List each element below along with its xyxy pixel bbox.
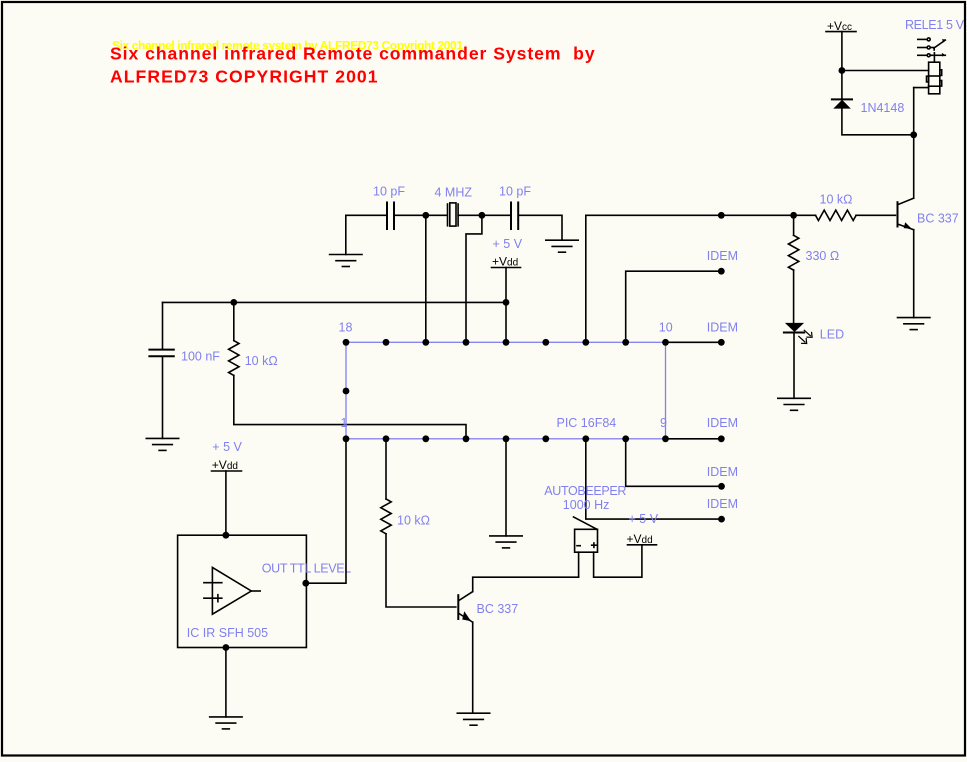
relay K1 contact 2	[918, 46, 934, 50]
wire Q2 collector up to relay node	[913, 88, 915, 199]
svg-text:IDEM: IDEM	[707, 416, 738, 430]
pin 15 dot	[463, 339, 470, 346]
svg-text:10 kΩ: 10 kΩ	[245, 354, 278, 368]
svg-text:10 kΩ: 10 kΩ	[397, 513, 430, 527]
node IDEM-5 dot	[718, 516, 725, 523]
pin 7 dot	[582, 435, 589, 442]
pin 17 dot	[383, 339, 390, 346]
wire C1 to node A	[394, 214, 447, 216]
pin 10 dot	[662, 339, 669, 346]
wire +Vdd down to IR receiver box	[225, 471, 227, 535]
wire R2 to LED	[793, 270, 795, 323]
node U2 output dot	[302, 580, 309, 587]
wire node D down to capacitor C3	[162, 302, 164, 349]
node B junction dot	[479, 212, 486, 219]
pin 6 dot	[542, 435, 549, 442]
wire osc rail left segment	[346, 214, 387, 216]
svg-text:BC 337: BC 337	[917, 211, 959, 225]
wire pin 8 down and right to IDEM	[626, 439, 722, 487]
wire pin 10 right to IDEM	[666, 341, 722, 343]
capacitor C3 100 nF	[149, 350, 173, 357]
node E junction dot on rail	[718, 212, 725, 219]
svg-text:BC 337: BC 337	[477, 602, 519, 616]
node U2 bottom pin dot	[223, 644, 230, 651]
node IDEM-1 dot	[718, 268, 725, 275]
svg-text:IC IR SFH 505: IC IR SFH 505	[187, 626, 268, 640]
IC U2 IR SFH 505 box	[178, 535, 307, 647]
wire R3 to Q2 base	[856, 214, 895, 216]
node H junction dot (Vcc/relay)	[839, 67, 846, 74]
relay K1 coil	[927, 62, 942, 94]
pin 2 dot	[383, 435, 390, 442]
left side pin dot	[343, 388, 350, 395]
node C junction dot (Vdd / MCLR rail)	[503, 299, 510, 306]
relay K1 contact 1	[918, 38, 930, 41]
wire pin 5 down to ground	[505, 439, 507, 536]
wire pin 11 up and right to IDEM	[626, 271, 722, 342]
ground G5 (IR receiver)	[210, 717, 242, 729]
svg-text:4 MHZ: 4 MHZ	[435, 186, 473, 200]
node D junction dot (10k pull-up tap)	[230, 299, 237, 306]
svg-text:18: 18	[339, 321, 353, 335]
svg-text:PIC 16F84: PIC 16F84	[557, 416, 617, 430]
wire buzzer minus terminal to Q1 collector line	[578, 552, 580, 577]
capacitor C2 10 pF	[511, 203, 518, 230]
wire R1 to PIC pin 4	[234, 375, 466, 438]
ground G7 (LED)	[778, 398, 810, 410]
svg-text:9: 9	[660, 416, 667, 430]
svg-text:10 kΩ: 10 kΩ	[820, 193, 853, 207]
resistor R2 330 Ohm	[793, 215, 795, 235]
wire relay coil lower terminal to node G	[914, 87, 929, 89]
pin 12 dot	[582, 339, 589, 346]
transistor Q1 BC 337	[458, 592, 472, 623]
svg-text:10 pF: 10 pF	[373, 185, 405, 199]
wire horizontal MCLR rail	[163, 301, 507, 303]
pin 13 dot	[542, 339, 549, 346]
svg-text:IDEM: IDEM	[707, 497, 738, 511]
svg-text:AUTOBEEPER: AUTOBEEPER	[544, 484, 626, 498]
wire D1 anode to node G	[842, 109, 914, 135]
ground G2 (right of C2)	[546, 240, 578, 252]
wire pin 12 up and right rail to R3	[586, 215, 816, 342]
wire U2 output right and up to pin 1	[306, 439, 346, 583]
pin 11 dot	[622, 339, 629, 346]
capacitor C1 10 pF	[387, 203, 394, 230]
node F junction dot (330 ohm tap)	[790, 212, 797, 219]
ground G6 (Q1 emitter)	[457, 713, 489, 725]
svg-text:+Vdd: +Vdd	[627, 532, 653, 546]
node U2 top pin dot	[223, 532, 230, 539]
pin 9 dot	[662, 435, 669, 442]
crystal X1 4 MHZ	[448, 203, 459, 226]
wire C2 to right ground drop	[518, 215, 562, 240]
LED D2 emission arrows	[798, 330, 812, 344]
pin 3 dot	[422, 435, 429, 442]
svg-text:IDEM: IDEM	[707, 465, 738, 479]
wire buzzer plus terminal to +Vdd	[594, 545, 642, 577]
svg-text:RELE1 5 V: RELE1 5 V	[905, 18, 965, 32]
wire node H to relay coil	[842, 70, 929, 72]
diode D1 1N4148 (cathode up)	[832, 99, 852, 108]
wire R4 down and right to Q1 base	[386, 534, 456, 607]
svg-text:OUT TTL LEVEL: OUT TTL LEVEL	[262, 561, 351, 575]
svg-text:IDEM: IDEM	[707, 321, 738, 335]
svg-text:1N4148: 1N4148	[861, 101, 905, 115]
node IDEM-4 dot	[718, 483, 725, 490]
LED D2	[784, 323, 804, 333]
svg-text:+Vdd: +Vdd	[492, 254, 518, 268]
resistor R3 10 kOhm (horizontal, base drive)	[816, 210, 857, 220]
wire Q1 collector up to beeper line	[473, 577, 579, 591]
wire Q2 emitter down to ground	[913, 230, 915, 318]
pin 4 dot	[463, 435, 470, 442]
svg-text:+ 5 V: + 5 V	[629, 512, 659, 526]
wire osc rail left drop to ground	[345, 215, 347, 254]
pin 14 dot	[503, 339, 510, 346]
resistor R4 10 kOhm (pin 2 series)	[385, 439, 387, 499]
ground G1 (left of 10pF C1)	[330, 255, 362, 267]
ground G3 (below C3)	[146, 438, 178, 450]
wire LED cathode to ground	[793, 333, 795, 399]
wire U2 bottom to ground	[225, 648, 227, 717]
relay K1 contact 3 (common)	[918, 53, 946, 62]
svg-text:LED: LED	[820, 328, 844, 342]
wire C3 to ground	[162, 356, 164, 438]
ground G8 (Q2 emitter)	[898, 318, 930, 330]
svg-text:1000 Hz: 1000 Hz	[563, 498, 610, 512]
pin 1 dot	[343, 435, 350, 442]
wire node A down to PIC pin 16	[425, 215, 427, 342]
svg-text:+Vdd: +Vdd	[212, 458, 238, 472]
relay K1 armature diagonal	[934, 40, 946, 48]
op-amp U2 comparator triangle	[204, 567, 260, 614]
svg-text:1: 1	[341, 416, 348, 430]
svg-text:10: 10	[659, 321, 673, 335]
wire Q1 emitter down to ground	[472, 622, 474, 713]
wire pin 9 right to IDEM	[666, 438, 722, 440]
resistor R1 10 kOhm (vertical pull-up)	[233, 302, 235, 340]
buzzer BZ1 autobeeper	[574, 517, 598, 552]
svg-text:100 nF: 100 nF	[181, 350, 220, 364]
wire +Vcc down to diode D1	[841, 32, 843, 100]
node IDEM-3 dot	[718, 435, 725, 442]
svg-text:Six channel infrared Remote co: Six channel infrared Remote commander Sy…	[110, 44, 596, 64]
pin 8 dot	[622, 435, 629, 442]
wire pin 7 down and right to IDEM	[586, 439, 722, 519]
pin 18 dot	[343, 339, 350, 346]
svg-text:ALFRED73 COPYRIGHT 2001: ALFRED73 COPYRIGHT 2001	[110, 67, 379, 87]
IC U1 PIC 16F84 outline	[346, 342, 666, 439]
wire node B jog down to PIC pin 15	[466, 215, 482, 342]
node IDEM-2 dot	[718, 339, 725, 346]
svg-text:IDEM: IDEM	[707, 249, 738, 263]
svg-text:+ 5 V: + 5 V	[493, 237, 523, 251]
pin 5 dot	[503, 435, 510, 442]
svg-text:330 Ω: 330 Ω	[806, 249, 840, 263]
node A junction dot	[422, 212, 429, 219]
svg-text:+ 5 V: + 5 V	[212, 440, 242, 454]
wire +Vdd down to pin 14	[505, 268, 507, 343]
transistor Q2 BC 337	[898, 198, 914, 230]
wire crystal to node B	[458, 214, 511, 216]
ground G4 (pin 5)	[490, 536, 522, 548]
node G junction dot (diode/relay/collector)	[910, 131, 917, 138]
svg-text:10 pF: 10 pF	[499, 185, 531, 199]
pin 16 dot	[422, 339, 429, 346]
